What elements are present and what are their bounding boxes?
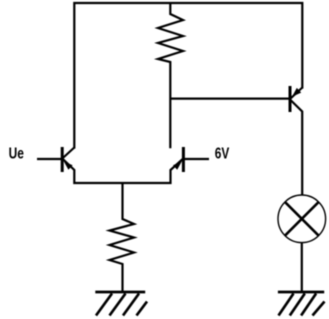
svg-text:6V: 6V	[215, 146, 230, 163]
svg-text:Ue: Ue	[9, 146, 24, 163]
